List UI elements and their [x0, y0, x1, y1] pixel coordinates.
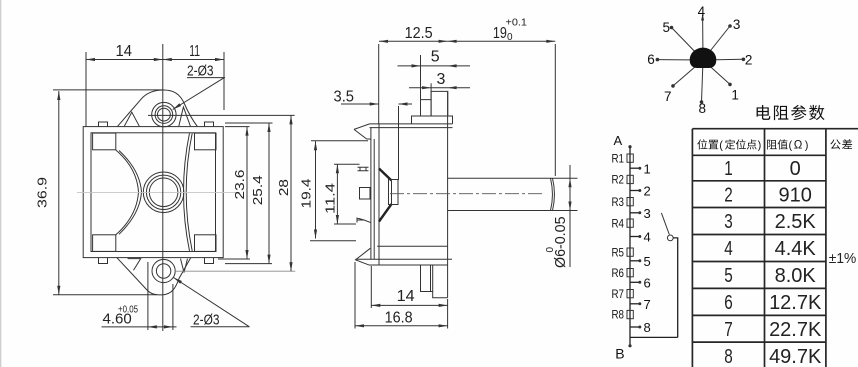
leader to bottom hole	[174, 278, 250, 327]
svg-text:2.5K: 2.5K	[775, 211, 817, 233]
table row line 7	[692, 341, 826, 343]
dim 19.4 extension top	[311, 140, 368, 142]
dim line 11	[163, 59, 224, 61]
dim 16.8 extension left	[354, 262, 356, 329]
rotary contact spoke 4	[702, 15, 704, 60]
shaft top edge	[448, 177, 553, 179]
svg-text:R5: R5	[612, 247, 625, 259]
svg-text:5: 5	[724, 265, 733, 287]
dim 14 bottom line	[371, 304, 447, 306]
svg-text:8: 8	[724, 346, 733, 367]
front view body inner wall rectangle	[91, 133, 216, 252]
svg-text:14: 14	[116, 43, 133, 60]
front view top edge tab left	[99, 122, 108, 127]
side view body right edge	[447, 91, 449, 297]
dim 16.8 extension right	[447, 299, 449, 329]
table header col2	[767, 140, 777, 150]
side view body left edge	[378, 124, 380, 265]
dim 11.4 extension top	[334, 163, 360, 165]
bottom pin small	[421, 265, 433, 292]
resistor R7	[627, 290, 633, 298]
rib band right inner	[186, 133, 192, 251]
svg-text:8: 8	[644, 320, 651, 335]
tap wire 1	[630, 167, 639, 169]
wiper bottom tab marker	[357, 218, 371, 223]
side view body interior bottom line	[377, 245, 447, 247]
bottom mounting ear outline	[117, 258, 191, 295]
front view horizontal centerline (faint)	[77, 191, 240, 193]
rotary contact spoke 6	[657, 59, 703, 61]
horizontal extension line through top hole	[148, 114, 295, 116]
dim 25.4 extension top	[225, 122, 273, 124]
svg-text:+0.05: +0.05	[118, 304, 138, 315]
bottom ear rib right	[181, 259, 188, 273]
wiper center tab	[360, 188, 371, 200]
dim 12.5 extension left	[378, 44, 380, 124]
resistor R5	[627, 248, 633, 256]
svg-text:1: 1	[731, 87, 739, 102]
rotary contact spoke 3	[703, 26, 730, 60]
svg-text:4: 4	[724, 238, 733, 260]
wiper output wire	[673, 238, 678, 338]
svg-text:28: 28	[276, 179, 291, 196]
svg-text:Ω: Ω	[794, 139, 803, 151]
wiper to B wire	[630, 336, 678, 338]
side view bottom flange upper line	[356, 258, 453, 260]
rotary contact spoke 1	[703, 60, 730, 84]
tap wire 2	[630, 190, 639, 192]
resistor R2	[627, 175, 633, 183]
svg-text:R3: R3	[612, 197, 625, 209]
top pin small	[421, 100, 432, 116]
top flange left wedge	[354, 124, 371, 139]
side view bottom flange lower line	[370, 264, 448, 266]
leader to top hole	[173, 78, 225, 110]
dim 19 line	[448, 40, 556, 42]
dim 19.4 extension bottom	[310, 240, 356, 242]
front view bottom edge tab right	[205, 258, 214, 264]
rotor dome	[690, 48, 717, 68]
central shaft hole	[149, 178, 178, 207]
dim phi6 extension bottom	[553, 210, 578, 212]
dim 36.9 extension bottom	[53, 294, 157, 296]
svg-text:16.8: 16.8	[385, 310, 413, 327]
dim 14 bottom extension left	[370, 266, 372, 308]
central boss middle circle	[146, 175, 180, 209]
dim line 23.6	[246, 127, 248, 259]
wiper cone top slant	[379, 169, 392, 181]
svg-text:36.9: 36.9	[35, 177, 50, 208]
terminal B dot	[628, 344, 631, 347]
svg-text:5: 5	[431, 48, 440, 65]
svg-text:0: 0	[790, 158, 801, 180]
side view left plate line2	[373, 139, 375, 259]
svg-text:4: 4	[644, 230, 651, 245]
dim 36.9 extension top	[53, 89, 163, 91]
dim 3.5 extension right	[398, 106, 400, 180]
dim 3 line	[409, 87, 470, 89]
svg-text:3: 3	[644, 206, 651, 221]
svg-text:22.7K: 22.7K	[769, 319, 822, 341]
dim 19 extension right	[554, 44, 556, 176]
svg-text:7: 7	[664, 89, 672, 104]
rotary contact spoke 2	[703, 58, 743, 61]
scan edge artifact	[0, 0, 2, 367]
dim 25.4 extension bottom	[225, 263, 272, 265]
shaft centerline	[390, 193, 543, 195]
svg-text:): )	[758, 140, 762, 152]
svg-text:3: 3	[733, 17, 741, 32]
svg-text:2: 2	[724, 184, 733, 206]
svg-text:2: 2	[644, 184, 651, 199]
table row line 4	[692, 261, 826, 263]
dim phi6 line	[569, 165, 571, 267]
svg-text:3: 3	[437, 71, 446, 88]
svg-text:5: 5	[644, 254, 651, 269]
wiper nut rectangle	[389, 180, 399, 205]
dim 5 extension left	[420, 55, 422, 100]
svg-text:R4: R4	[612, 218, 625, 230]
front view bottom edge tab left	[99, 258, 108, 264]
svg-text:(: (	[789, 140, 793, 152]
svg-text:1: 1	[644, 161, 651, 176]
svg-text:2: 2	[745, 53, 753, 68]
svg-text:4.4K: 4.4K	[775, 238, 817, 260]
svg-text:8.0K: 8.0K	[775, 265, 817, 287]
tap wire 3	[630, 212, 639, 214]
svg-text:Ø6-0.05: Ø6-0.05	[552, 217, 569, 269]
resistor R4	[627, 219, 633, 227]
dim 3.5 line	[341, 103, 412, 105]
svg-text:R7: R7	[612, 289, 625, 301]
svg-text:±1%: ±1%	[829, 250, 857, 267]
svg-text:R8: R8	[612, 310, 625, 322]
top pin tall	[431, 91, 448, 116]
rotary contact spoke 5	[672, 28, 704, 61]
svg-text:A: A	[614, 133, 623, 148]
dim 11.4 extension bottom	[334, 223, 356, 225]
svg-text:910: 910	[779, 184, 812, 206]
wiper cone bottom slant	[379, 204, 392, 222]
rib band right outer	[184, 133, 190, 251]
label 2-phi3 bottom underline	[191, 326, 250, 328]
tap wire 6	[630, 281, 639, 283]
dim 14-11 extension line right	[223, 52, 225, 110]
dim 16.8 line	[355, 325, 448, 327]
resistor R6	[627, 269, 633, 277]
top ear hole outer ring	[152, 102, 176, 126]
table column separator 2	[825, 129, 827, 367]
svg-text:2-Ø3: 2-Ø3	[193, 311, 220, 328]
svg-text:0: 0	[507, 32, 513, 43]
wiper cone right edge	[391, 181, 393, 205]
dim 4.60 extension right	[172, 284, 174, 330]
svg-text:R2: R2	[612, 175, 625, 187]
svg-text:4: 4	[698, 4, 706, 19]
svg-text:14: 14	[397, 288, 415, 305]
table row line 6	[692, 314, 826, 316]
svg-text:2-Ø3: 2-Ø3	[187, 62, 214, 79]
table header col1	[697, 139, 707, 149]
front view vertical centerline	[162, 44, 164, 331]
top ear hole middle ring	[155, 106, 173, 124]
svg-text:49.7K: 49.7K	[769, 346, 822, 367]
table column separator 1	[764, 129, 766, 367]
svg-text:12.7K: 12.7K	[769, 292, 822, 314]
wiper top tab	[358, 167, 369, 171]
front view body outer rectangle	[83, 127, 223, 258]
corner pad top-left	[93, 133, 116, 150]
svg-text:3.5: 3.5	[334, 88, 355, 105]
central boss outer circle	[143, 172, 184, 213]
svg-text:19.4: 19.4	[298, 179, 313, 209]
tap wire 7	[630, 303, 639, 305]
top mounting ear outline	[118, 90, 198, 126]
side view top flange top line	[370, 123, 453, 125]
dim 4.60 extension left	[147, 262, 149, 330]
dim 12.5 line	[379, 40, 448, 42]
svg-text:23.6: 23.6	[232, 170, 247, 200]
dim 23.6 extension top	[225, 126, 250, 128]
dim 28 extension bottom	[176, 270, 295, 272]
dim line 25.4	[268, 123, 270, 264]
svg-text:R1: R1	[612, 153, 625, 165]
resistor R3	[627, 198, 633, 206]
svg-text:+0.1: +0.1	[506, 18, 528, 29]
dim 5 line	[398, 65, 471, 67]
svg-text:7: 7	[644, 297, 651, 312]
table outer top border	[692, 128, 858, 130]
dim 11.4 line	[336, 164, 338, 224]
front view top edge tab right	[205, 122, 214, 127]
terminal A dot	[628, 145, 631, 148]
wiper contact circle	[667, 235, 673, 241]
svg-text:8: 8	[699, 101, 707, 116]
bottom piece	[431, 265, 448, 298]
dim 14-11 extension line left	[85, 52, 87, 127]
tap wire 5	[630, 260, 639, 262]
dim line 28	[290, 115, 292, 271]
dim 23.6 extension bottom	[218, 258, 250, 260]
svg-text:6: 6	[644, 276, 651, 291]
rotary contact spoke 4 arrowhead	[701, 14, 704, 21]
top ear rib right	[179, 107, 191, 126]
table header col3	[830, 139, 840, 149]
tap wire 4	[630, 236, 639, 238]
svg-text:12.5: 12.5	[405, 25, 433, 42]
svg-text:11: 11	[189, 43, 200, 60]
svg-text:11.4: 11.4	[323, 183, 338, 214]
table row line 3	[692, 234, 826, 236]
svg-text:1: 1	[724, 158, 733, 180]
tap wire 8	[630, 326, 639, 328]
svg-text:7: 7	[724, 319, 733, 341]
wiper arm	[661, 213, 669, 235]
rib band left outer	[116, 150, 139, 235]
dim 3 extension left	[430, 83, 432, 99]
shaft bottom edge	[448, 210, 553, 212]
rotary contact spoke 8	[702, 60, 704, 102]
bottom ear hole outer ring	[152, 259, 175, 282]
dim line 36.9	[58, 91, 60, 295]
svg-text:3: 3	[724, 211, 733, 233]
top ear hole bore	[158, 108, 171, 121]
table row line 2	[692, 207, 826, 209]
corner pad bottom-left	[93, 235, 116, 252]
svg-text:R6: R6	[612, 268, 625, 280]
bottom flange left wedge	[356, 248, 371, 265]
dim line 14	[86, 59, 163, 61]
svg-text:6: 6	[647, 52, 655, 67]
resistor R1	[627, 154, 633, 162]
dim phi6 extension top	[553, 177, 578, 179]
rib band left inner	[119, 151, 142, 235]
table left border	[691, 129, 693, 367]
svg-text:0: 0	[545, 247, 556, 253]
corner pad bottom-right	[195, 235, 217, 252]
svg-text:B: B	[615, 345, 624, 361]
resistor R8	[627, 310, 633, 318]
schematic main vertical wire	[629, 147, 631, 346]
side view top flange second line	[370, 127, 453, 129]
shaft end cap	[551, 178, 555, 210]
label 2-phi3 top underline	[187, 77, 225, 79]
rotary contact spoke 7	[673, 60, 703, 86]
corner pad top-right	[195, 133, 217, 150]
side view left plate line1	[370, 128, 372, 259]
dim 19.4 line	[315, 141, 317, 238]
table row line 5	[692, 287, 826, 289]
dim line 4.60	[102, 326, 177, 328]
svg-text:25.4: 25.4	[250, 175, 265, 205]
top ear rib left	[124, 112, 139, 126]
svg-text:): )	[805, 140, 809, 152]
table row line 1	[692, 180, 826, 182]
svg-text:(: (	[719, 140, 723, 152]
svg-text:6: 6	[724, 292, 733, 314]
table title	[757, 105, 771, 120]
bottom ear rib left	[128, 259, 141, 271]
svg-text:5: 5	[663, 20, 671, 35]
top platform line	[412, 116, 453, 124]
table row line 0	[692, 154, 826, 156]
bottom ear hole bore	[156, 264, 170, 278]
